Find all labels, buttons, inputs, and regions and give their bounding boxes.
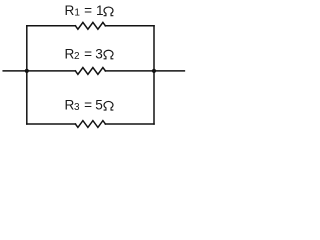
svg-text:R3=5: R3=5: [65, 98, 103, 114]
label: ohm symbol of R1: [104, 7, 114, 16]
resistor R2: [75, 68, 105, 75]
resistor R1: [75, 22, 105, 29]
wire: right external lead: [154, 70, 184, 72]
resistor R3: [75, 121, 105, 128]
node: right junction: [152, 69, 156, 73]
wire: top branch left segment: [27, 25, 76, 27]
wire: middle branch left segment: [27, 70, 76, 72]
wire: middle branch right segment: [105, 70, 154, 72]
wire: top branch right segment: [105, 25, 154, 27]
wire: left vertical side: [26, 26, 28, 124]
wire: left external lead: [3, 70, 27, 72]
wire: bottom branch right segment: [105, 123, 154, 125]
wire: right vertical side: [153, 26, 155, 124]
label: ohm symbol of R3: [104, 101, 114, 110]
svg-text:R1=1: R1=1: [65, 3, 104, 19]
wire: bottom branch left segment: [27, 123, 76, 125]
label: ohm symbol of R2: [104, 50, 114, 59]
svg-text:R2=3: R2=3: [65, 46, 103, 62]
node: left junction: [25, 69, 29, 73]
